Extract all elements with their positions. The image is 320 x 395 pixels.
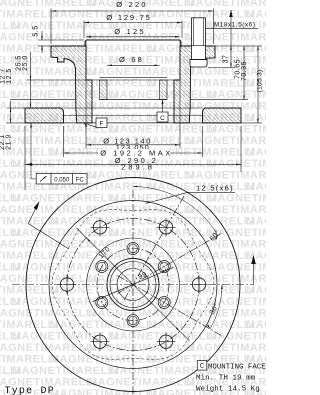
svg-text:MAGNETIMARELLI: MAGNETIMARELLI xyxy=(186,66,266,78)
svg-text:MAGNETIMARELLI: MAGNETIMARELLI xyxy=(246,147,266,159)
svg-text:C: C xyxy=(160,115,165,122)
svg-text:70.35: 70.35 xyxy=(241,61,248,81)
svg-text:21.9: 21.9 xyxy=(6,134,13,150)
svg-text:MAGNETIMARELLI: MAGNETIMARELLI xyxy=(0,273,97,285)
svg-text:MAGNETIMARELLI: MAGNETIMARELLI xyxy=(186,135,266,147)
svg-text:289.8: 289.8 xyxy=(121,162,155,171)
svg-text:37: 37 xyxy=(223,55,230,64)
svg-text:MAGNETIMARELLI: MAGNETIMARELLI xyxy=(246,216,266,228)
svg-text:12.5(x6): 12.5(x6) xyxy=(196,183,234,192)
svg-text:MAGNETIMARELLI: MAGNETIMARELLI xyxy=(246,43,266,55)
svg-text:MAGNETIMARELLI: MAGNETIMARELLI xyxy=(186,342,266,354)
svg-text:MAGNETIMARELLI: MAGNETIMARELLI xyxy=(0,308,97,320)
svg-text:MAGNETIMARELLI: MAGNETIMARELLI xyxy=(0,342,97,354)
svg-text:MAGNETIMARELLI: MAGNETIMARELLI xyxy=(246,9,266,21)
svg-text:Min. TH 19 mm: Min. TH 19 mm xyxy=(196,375,256,383)
svg-text:Ø 68: Ø 68 xyxy=(119,55,144,64)
svg-text:MAGNETIMARELLI: MAGNETIMARELLI xyxy=(12,331,119,343)
svg-text:MAGNETIMARELLI: MAGNETIMARELLI xyxy=(0,135,97,147)
svg-text:12.5: 12.5 xyxy=(6,68,13,84)
svg-text:MAGNETIMARELLI: MAGNETIMARELLI xyxy=(0,204,97,216)
svg-text:MAGNETIMARELLI: MAGNETIMARELLI xyxy=(186,239,266,251)
svg-text:MAGNETIMARELLI: MAGNETIMARELLI xyxy=(148,216,255,228)
svg-text:MAGNETIMARELLI: MAGNETIMARELLI xyxy=(148,319,255,331)
svg-text:F: F xyxy=(100,121,104,128)
svg-text:MAGNETIMARELLI: MAGNETIMARELLI xyxy=(110,124,217,136)
svg-text:MAGNETIMARELLI: MAGNETIMARELLI xyxy=(246,250,266,262)
svg-text:5.5: 5.5 xyxy=(33,25,40,36)
svg-text:C: C xyxy=(200,363,204,371)
svg-text:MAGNETIMARELLI: MAGNETIMARELLI xyxy=(186,204,266,216)
svg-text:FC: FC xyxy=(76,177,85,183)
svg-text:0.050: 0.050 xyxy=(54,177,70,183)
svg-text:MAGNETIMARELLI: MAGNETIMARELLI xyxy=(50,354,157,366)
svg-text:MAGNETIMARELLI: MAGNETIMARELLI xyxy=(0,239,97,251)
svg-text:MAGNETIMARELLI: MAGNETIMARELLI xyxy=(12,193,119,205)
svg-text:Type DP: Type DP xyxy=(5,386,55,395)
svg-text:MAGNETIMARELLI: MAGNETIMARELLI xyxy=(208,331,266,343)
svg-text:MAGNETIMARELLI: MAGNETIMARELLI xyxy=(186,308,266,320)
svg-text:MAGNETIMARELLI: MAGNETIMARELLI xyxy=(208,193,266,205)
svg-text:Ø 220: Ø 220 xyxy=(116,0,147,9)
svg-text:Ø 125: Ø 125 xyxy=(114,27,145,36)
svg-text:MAGNETIMARELLI: MAGNETIMARELLI xyxy=(110,331,217,343)
svg-text:MAGNETIMARELLI: MAGNETIMARELLI xyxy=(12,20,119,32)
svg-text:M18x1.5(x6): M18x1.5(x6) xyxy=(214,22,256,29)
svg-text:Weight 14.5 Kg: Weight 14.5 Kg xyxy=(196,386,260,394)
svg-text:MAGNETIMARELLI: MAGNETIMARELLI xyxy=(88,377,195,389)
svg-text:MAGNETIMARELLI: MAGNETIMARELLI xyxy=(0,32,97,44)
svg-text:MAGNETIMARELLI: MAGNETIMARELLI xyxy=(208,262,266,274)
svg-text:MAGNETIMARELLI: MAGNETIMARELLI xyxy=(246,285,266,297)
svg-text:MAGNETIMARELLI: MAGNETIMARELLI xyxy=(50,319,157,331)
svg-text:MAGNETIMARELLI: MAGNETIMARELLI xyxy=(246,112,266,124)
svg-text:MAGNETIMARELLI: MAGNETIMARELLI xyxy=(186,273,266,285)
svg-text:Ø 129.75: Ø 129.75 xyxy=(106,13,151,22)
svg-text:MAGNETIMARELLI: MAGNETIMARELLI xyxy=(88,66,195,78)
svg-text:MOUNTING FACE: MOUNTING FACE xyxy=(208,363,266,371)
svg-text:(105.3): (105.3) xyxy=(257,70,264,93)
svg-text:MAGNETIMARELLI: MAGNETIMARELLI xyxy=(50,285,157,297)
svg-text:MAGNETIMARELLI: MAGNETIMARELLI xyxy=(246,181,266,193)
svg-text:MAGNETIMARELLI: MAGNETIMARELLI xyxy=(208,124,266,136)
svg-text:MAGNETIMARELLI: MAGNETIMARELLI xyxy=(12,227,119,239)
svg-text:MAGNETIMARELLI: MAGNETIMARELLI xyxy=(186,170,266,182)
svg-text:MAGNETIMARELLI: MAGNETIMARELLI xyxy=(246,319,266,331)
svg-text:25.0: 25.0 xyxy=(22,55,29,71)
